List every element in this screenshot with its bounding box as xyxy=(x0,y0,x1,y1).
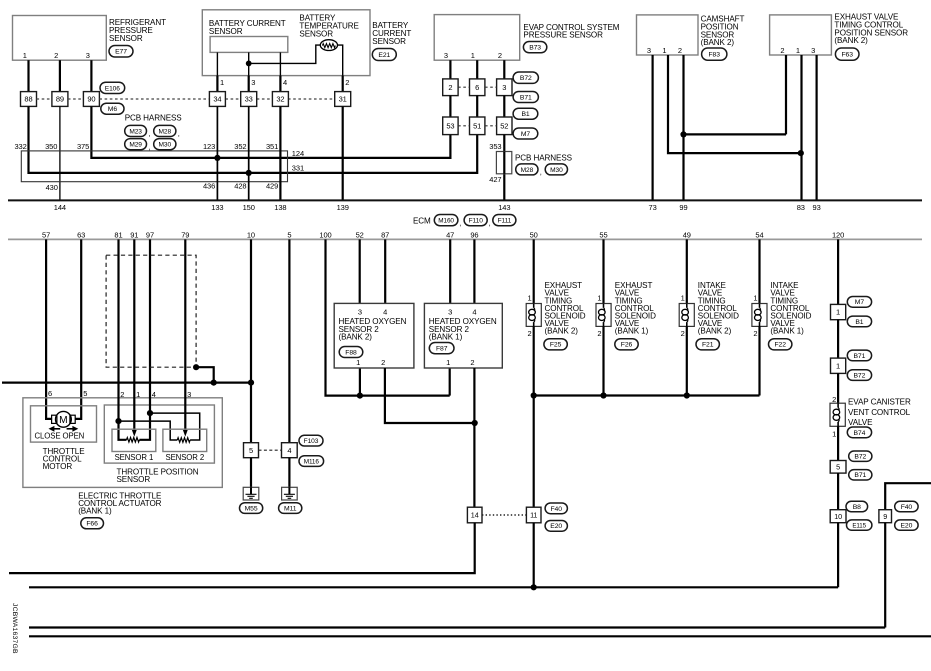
junction solenoid rail at F25 xyxy=(531,392,537,398)
svg-text:F40: F40 xyxy=(550,506,562,513)
connector box 32 xyxy=(272,92,288,107)
connector box 14 xyxy=(467,507,482,523)
svg-text:3: 3 xyxy=(444,51,448,60)
svg-text:F26: F26 xyxy=(621,342,633,349)
shield drain junction xyxy=(193,364,199,370)
wire ECM 54 to solenoid F22 xyxy=(758,239,760,303)
ECM top terminal bus xyxy=(8,199,922,201)
svg-text:2: 2 xyxy=(753,329,757,338)
connector label M6 xyxy=(101,103,124,114)
splice line B to off-page left xyxy=(29,586,838,588)
svg-text:1: 1 xyxy=(446,358,450,367)
svg-text:2: 2 xyxy=(345,78,349,87)
svg-text:31: 31 xyxy=(339,95,347,104)
junction TPS low side xyxy=(115,418,121,424)
wire F63 pin 1 to ECM 83 xyxy=(800,55,802,200)
svg-text:E21: E21 xyxy=(378,52,390,59)
connector box 33 xyxy=(241,92,257,107)
svg-text:1: 1 xyxy=(136,390,140,399)
wire ECM 96 to HO2S bank1 pin 4 xyxy=(473,239,475,303)
svg-text:MOTOR: MOTOR xyxy=(43,462,73,471)
connector box 11 xyxy=(526,507,541,523)
BCS pin labels xyxy=(220,78,349,87)
svg-text:M28: M28 xyxy=(159,128,172,135)
svg-text:M7: M7 xyxy=(521,131,531,138)
TPS pin labels xyxy=(120,390,191,399)
svg-text:73: 73 xyxy=(649,203,657,212)
svg-text:B71: B71 xyxy=(854,353,866,360)
svg-text:133: 133 xyxy=(211,203,223,212)
wire ECM 57 to throttle motor pin 6 xyxy=(46,239,52,419)
svg-text:53: 53 xyxy=(446,122,454,131)
battery temperature sensor thermistor xyxy=(299,14,359,39)
junction of wire 352 and 331 line xyxy=(246,170,252,176)
connector box 5 F103/M116 xyxy=(244,443,259,458)
svg-text:3: 3 xyxy=(187,390,191,399)
svg-text:139: 139 xyxy=(337,203,349,212)
svg-text:88: 88 xyxy=(24,95,32,104)
svg-text:2: 2 xyxy=(678,46,682,55)
wire ECM 50 to solenoid F25 xyxy=(533,239,535,303)
connector box 34 xyxy=(209,92,225,107)
thermistor left lead to pin 3 wire xyxy=(249,45,321,63)
ECM bottom terminal bus xyxy=(8,238,922,240)
wire ECM 47 to HO2S bank1 pin 3 xyxy=(449,239,451,303)
connector label E77 xyxy=(109,46,133,58)
svg-text:(BANK 2): (BANK 2) xyxy=(339,333,373,342)
wire ECM 63 to throttle motor pin 5 xyxy=(75,239,81,419)
wire F83 pin 3 to ECM 73 xyxy=(651,55,653,200)
wire F83 pin 1 to F63 pin 1 junction xyxy=(668,55,801,153)
svg-text:F25: F25 xyxy=(550,342,562,349)
svg-text:F87: F87 xyxy=(436,346,448,353)
camshaft position sensor bank 2 F83 xyxy=(637,15,699,55)
svg-text:EVAP CANISTER: EVAP CANISTER xyxy=(848,398,911,407)
svg-text:F103: F103 xyxy=(304,438,319,445)
thin shield loop around splice band xyxy=(21,151,287,182)
svg-text:B1: B1 xyxy=(855,319,863,326)
svg-text:E106: E106 xyxy=(105,85,120,92)
wire E77 pin 3 upper segment xyxy=(90,60,92,91)
svg-text:(BANK 1): (BANK 1) xyxy=(429,333,463,342)
svg-text:32: 32 xyxy=(276,95,284,104)
wire ECM 79 to TPS sensor 2 wiper xyxy=(184,239,186,431)
TPS sensor 2 element box xyxy=(163,429,207,451)
ground M11 xyxy=(282,487,298,500)
wire F83 pin 2 to ECM 99 xyxy=(682,55,684,200)
svg-text:1: 1 xyxy=(356,358,360,367)
junction TPS high side xyxy=(147,410,153,416)
svg-text:3: 3 xyxy=(251,78,255,87)
svg-text:10: 10 xyxy=(834,512,842,521)
dashed line between connector 5 and 4 xyxy=(259,449,282,451)
wire 353/427 B73 pin 2 to ECM 143 xyxy=(503,135,505,201)
svg-text:2: 2 xyxy=(597,329,601,338)
wire E77 pin 1 upper segment xyxy=(27,60,29,91)
svg-text:E20: E20 xyxy=(901,523,913,530)
wire connector 14 off-page via left xyxy=(9,523,475,573)
connector box 1 M7/B1 xyxy=(831,304,846,319)
svg-text:3: 3 xyxy=(502,83,506,92)
connector label E20 xyxy=(895,520,918,530)
connector label F40 xyxy=(895,501,918,511)
ground rail to ECM 10 xyxy=(2,382,251,384)
svg-text:PCB HARNESS: PCB HARNESS xyxy=(125,114,183,123)
svg-text:2: 2 xyxy=(54,51,58,60)
svg-text:PCB HARNESS: PCB HARNESS xyxy=(515,154,573,163)
svg-text:79: 79 xyxy=(181,230,189,239)
svg-text:2: 2 xyxy=(832,395,836,404)
svg-text:M11: M11 xyxy=(284,505,297,512)
junction thermistor lead and pin 3 wire xyxy=(246,61,252,67)
svg-text:50: 50 xyxy=(530,230,538,239)
svg-text:F63: F63 xyxy=(841,52,853,59)
wire ECM 10 to connector 5 xyxy=(250,239,252,442)
ground M55 xyxy=(243,487,259,500)
internal wires of battery current sensor xyxy=(216,52,218,75)
exhaust valve timing control position sensor bank 2 F63 xyxy=(770,15,832,55)
svg-text:375: 375 xyxy=(77,142,89,151)
svg-text:(BANK 1): (BANK 1) xyxy=(78,507,112,516)
svg-text:81: 81 xyxy=(114,230,122,239)
svg-text:,: , xyxy=(149,129,151,138)
wire F26 pin 2 to rail xyxy=(602,326,604,395)
dashed harness line E106/M6 xyxy=(37,98,335,100)
svg-text:1: 1 xyxy=(836,308,840,317)
wire HO2S bank1 pin 2 down to connector 14 xyxy=(473,368,475,507)
svg-text:5: 5 xyxy=(836,463,840,472)
svg-text:E20: E20 xyxy=(550,523,562,530)
svg-text:F40: F40 xyxy=(901,504,913,511)
connector box 5 B72/B71 xyxy=(830,461,846,474)
connector label B71 xyxy=(513,92,538,103)
wire 123/436 BCS pin1 to ECM 133 xyxy=(216,106,218,200)
EVAP control system pressure sensor B73 xyxy=(434,15,520,61)
wire HO2S bank2 pin 2 to pin2 rail xyxy=(385,368,475,423)
wire HO2S bank1 pin 1 xyxy=(449,368,451,396)
motor M symbol xyxy=(52,411,76,427)
svg-text:2: 2 xyxy=(498,51,502,60)
ECM top pin numbers xyxy=(54,203,821,212)
throttle position sensor label xyxy=(117,467,199,484)
wire ECM 87 to HO2S bank2 pin 4 xyxy=(384,239,386,303)
connector box 31 xyxy=(335,92,351,107)
svg-text:B1: B1 xyxy=(521,111,529,118)
shield dashed box around TPS wires xyxy=(106,255,196,367)
svg-text:4: 4 xyxy=(472,308,476,317)
svg-text:1: 1 xyxy=(836,361,840,370)
wire connector 5 to connector 10 xyxy=(837,473,839,510)
wire ECM 120 down right column xyxy=(837,239,839,304)
svg-text:47: 47 xyxy=(446,230,454,239)
line D through wire xyxy=(29,635,931,637)
svg-text:SENSOR 1: SENSOR 1 xyxy=(115,453,154,462)
svg-text:M6: M6 xyxy=(108,106,118,113)
svg-text:4: 4 xyxy=(287,446,291,455)
junction F21 on rail xyxy=(684,392,690,398)
svg-text:VALVE: VALVE xyxy=(848,418,873,427)
svg-text:E115: E115 xyxy=(852,523,866,530)
svg-text:5: 5 xyxy=(287,230,291,239)
svg-text:M28: M28 xyxy=(521,167,534,174)
svg-text:M160: M160 xyxy=(438,218,454,225)
wire HO2S bank2 pin 1 xyxy=(359,368,361,396)
wire F63 pin 2 down to cross link xyxy=(785,55,787,134)
svg-text:138: 138 xyxy=(274,203,286,212)
junction pin1 rail xyxy=(357,393,363,399)
shield drain wire xyxy=(196,367,214,382)
wire B73 pin 2 to connector 3 xyxy=(503,60,505,79)
wire 375/124 from E77 pin 3 to EVAP connector 53 xyxy=(91,106,450,157)
junction shield drain on ground rail xyxy=(211,380,217,386)
svg-text:93: 93 xyxy=(813,203,821,212)
wire 332/331 from E77 pin 1 to EVAP connector 51 xyxy=(29,106,478,172)
solenoid common rail xyxy=(534,394,760,396)
svg-text:ECM: ECM xyxy=(413,217,431,226)
svg-text:2: 2 xyxy=(448,83,452,92)
svg-text:14: 14 xyxy=(471,511,479,520)
connector box 90 xyxy=(83,92,99,107)
svg-text:352: 352 xyxy=(234,142,246,151)
svg-text:55: 55 xyxy=(599,230,607,239)
connector box 89 xyxy=(52,92,68,107)
svg-text:E77: E77 xyxy=(115,49,127,56)
svg-text:33: 33 xyxy=(245,95,253,104)
wire BCS pin 2 to connector 31 xyxy=(342,76,344,92)
svg-text:1: 1 xyxy=(471,51,475,60)
svg-text:2: 2 xyxy=(681,329,685,338)
wire valve pin1 to connector 5 xyxy=(837,426,839,460)
svg-text:1: 1 xyxy=(662,46,666,55)
wire E77 pin 2 upper segment xyxy=(59,60,61,91)
wire F25 pin 2 down to connector 11 xyxy=(533,326,535,507)
battery current sensor inner element xyxy=(210,37,288,53)
svg-text:3: 3 xyxy=(86,51,90,60)
svg-text:2: 2 xyxy=(780,46,784,55)
wire F63 pin 2 cross link xyxy=(684,133,787,135)
svg-text:51: 51 xyxy=(473,122,481,131)
wire BCS pin 1 to connector 34 xyxy=(216,76,218,92)
throttle control motor box xyxy=(31,406,97,442)
wire ECM 5 to connector 4 xyxy=(288,239,290,442)
refrigerant pressure sensor E77 xyxy=(13,16,107,61)
svg-text:B71: B71 xyxy=(854,472,866,479)
connector label B72 xyxy=(849,451,872,461)
connector label B72 xyxy=(847,370,871,381)
svg-text:34: 34 xyxy=(213,95,221,104)
connector box 2 xyxy=(443,79,458,96)
wire connector 9 to line C xyxy=(884,523,886,628)
dotted line between connector 14 and 11 xyxy=(482,514,528,516)
wire B73 pin 1 to connector 6 xyxy=(476,60,478,79)
TPS high side link to sensor 2 xyxy=(150,413,200,440)
svg-text:57: 57 xyxy=(42,230,50,239)
wire to EVAP canister vent control valve xyxy=(837,373,839,403)
svg-text:2: 2 xyxy=(381,358,385,367)
ECM bottom pin numbers xyxy=(42,230,844,239)
svg-text:90: 90 xyxy=(87,95,95,104)
svg-text:49: 49 xyxy=(683,230,691,239)
svg-text:11: 11 xyxy=(530,511,537,520)
dashed line between connectors 53-51-52 xyxy=(458,125,497,127)
heated oxygen sensor 2 bank 1 box F87 xyxy=(424,303,502,368)
svg-text:428: 428 xyxy=(234,182,246,191)
svg-text:2: 2 xyxy=(528,329,532,338)
svg-text:353: 353 xyxy=(489,142,501,151)
wire 352/428 BCS pin3 to ECM 150 xyxy=(248,106,250,200)
svg-text:1: 1 xyxy=(753,294,757,303)
PCB harness pass-through connector xyxy=(496,152,511,174)
svg-text:96: 96 xyxy=(470,230,478,239)
svg-text:(BANK 2): (BANK 2) xyxy=(545,327,579,336)
wire BCS pin 3 to connector 33 xyxy=(248,76,250,92)
connector label M7 xyxy=(847,297,871,308)
svg-text:144: 144 xyxy=(54,203,66,212)
connector label B71 xyxy=(847,350,871,361)
connector box 52 xyxy=(497,117,512,135)
svg-text:SENSOR: SENSOR xyxy=(372,37,406,46)
svg-text:F88: F88 xyxy=(345,349,357,356)
wires between connector rows xyxy=(449,96,451,117)
svg-text:2: 2 xyxy=(470,358,474,367)
connector label F103 xyxy=(299,435,323,446)
wire ECM 91 to TPS sensor 1 wiper xyxy=(133,239,135,431)
wire ECM 52 to HO2S bank2 pin 3 xyxy=(359,239,361,303)
svg-text:F111: F111 xyxy=(498,218,512,225)
wire connector 11 to splice on line B xyxy=(533,523,535,588)
svg-text:3: 3 xyxy=(811,46,815,55)
connector label E106 xyxy=(100,82,125,93)
svg-text:1: 1 xyxy=(681,294,685,303)
wire F21 pin 2 to rail xyxy=(686,326,688,395)
svg-text:4: 4 xyxy=(152,390,156,399)
junction of wire 123 and 124 line xyxy=(214,155,220,161)
svg-text:M23: M23 xyxy=(129,128,142,135)
svg-text:1: 1 xyxy=(220,78,224,87)
connector label M116 xyxy=(299,456,324,467)
wire ECM 100 to oxygen sensor pin 1 rail xyxy=(326,239,450,395)
svg-text:89: 89 xyxy=(56,95,64,104)
svg-text:SENSOR 2: SENSOR 2 xyxy=(165,453,204,462)
connector box 88 xyxy=(21,92,37,107)
svg-text:B72: B72 xyxy=(854,372,866,379)
svg-text:SENSOR: SENSOR xyxy=(209,27,243,36)
svg-text:,: , xyxy=(149,142,151,151)
svg-text:1: 1 xyxy=(23,51,27,60)
svg-text:4: 4 xyxy=(383,308,387,317)
line C to off-page left xyxy=(29,626,885,628)
motor close open arrows xyxy=(49,426,79,432)
connector label M7 xyxy=(513,128,538,139)
heated oxygen sensor 2 bank 2 box F88 xyxy=(334,303,414,368)
junction F63 pin1 and F83 pin1 link xyxy=(798,150,804,156)
svg-text:10: 10 xyxy=(247,230,255,239)
svg-text:52: 52 xyxy=(500,122,508,131)
svg-text:150: 150 xyxy=(243,203,255,212)
svg-text:B72: B72 xyxy=(520,75,532,82)
svg-text:1: 1 xyxy=(597,294,601,303)
connector box 6 xyxy=(470,79,485,96)
wire B73 pin 3 to connector 2 xyxy=(449,60,451,79)
svg-text:143: 143 xyxy=(498,203,510,212)
svg-text:427: 427 xyxy=(489,175,501,184)
svg-text:436: 436 xyxy=(203,182,215,191)
svg-text:351: 351 xyxy=(266,142,278,151)
svg-text:1: 1 xyxy=(528,294,532,303)
svg-text:124: 124 xyxy=(292,149,304,158)
connector box 9 F40/E20 xyxy=(879,510,892,523)
connector label F40 xyxy=(545,503,567,514)
wire F22 pin 2 to rail xyxy=(758,326,760,395)
svg-text:6: 6 xyxy=(475,83,479,92)
svg-text:4: 4 xyxy=(283,78,287,87)
wire ECM 81 to TPS sensor 1 low side xyxy=(119,239,127,439)
svg-text:350: 350 xyxy=(45,142,57,151)
svg-text:F83: F83 xyxy=(708,52,720,59)
svg-text:1: 1 xyxy=(832,429,836,438)
dashed line between connectors 2-6-3 xyxy=(458,86,497,88)
svg-text:(BANK 1): (BANK 1) xyxy=(770,327,804,336)
battery current sensor assembly box E21 xyxy=(202,10,370,76)
TPS low side link to sensor 2 xyxy=(119,421,178,440)
wire 351/429 BCS pin4 to ECM 138 xyxy=(279,106,281,200)
svg-text:(BANK 2): (BANK 2) xyxy=(834,36,868,45)
svg-text:331: 331 xyxy=(292,164,304,173)
svg-text:B74: B74 xyxy=(854,430,866,437)
svg-text:JCBWA1637GB: JCBWA1637GB xyxy=(11,603,18,654)
connector box 51 xyxy=(470,117,485,135)
junction connector 11 wire on line B xyxy=(531,584,537,590)
svg-text:120: 120 xyxy=(832,230,844,239)
svg-text:99: 99 xyxy=(679,203,687,212)
svg-text:F22: F22 xyxy=(774,342,786,349)
wire ECM 97 to TPS sensor 1 high side xyxy=(139,239,150,439)
svg-text:B73: B73 xyxy=(529,45,541,52)
wire ECM 55 to solenoid F26 xyxy=(602,239,604,303)
wire 350/430 from E77 pin 2 to ECM pin 144 xyxy=(59,106,61,200)
svg-text:M29: M29 xyxy=(129,142,142,149)
svg-text:2: 2 xyxy=(120,390,124,399)
connector box 3 xyxy=(497,79,512,96)
junction wire 10 on ground rail xyxy=(248,380,254,386)
svg-text:,: , xyxy=(489,219,491,228)
wire connector 5 to ground M55 xyxy=(250,458,252,488)
wire ECM 49 to solenoid F21 xyxy=(686,239,688,303)
svg-text:429: 429 xyxy=(266,182,278,191)
wire connector 10 to splice line B xyxy=(837,523,839,588)
svg-text:VENT CONTROL: VENT CONTROL xyxy=(848,408,911,417)
svg-text:123: 123 xyxy=(203,142,215,151)
connector label E20 xyxy=(545,521,567,532)
svg-text:87: 87 xyxy=(381,230,389,239)
electric throttle control actuator label F66 xyxy=(78,491,162,515)
svg-text:(BANK 2): (BANK 2) xyxy=(698,327,732,336)
svg-text:SENSOR: SENSOR xyxy=(109,34,143,43)
connector box 53 xyxy=(443,117,458,135)
junction F26 on rail xyxy=(600,392,606,398)
svg-text:B72: B72 xyxy=(854,454,866,461)
svg-text:5: 5 xyxy=(249,446,253,455)
svg-text:M55: M55 xyxy=(245,505,258,512)
svg-text:M: M xyxy=(59,415,68,426)
svg-text:3: 3 xyxy=(647,46,651,55)
connector box 4 F103/M116 xyxy=(282,443,298,458)
connector label B72 xyxy=(513,72,538,83)
svg-text:(BANK 2): (BANK 2) xyxy=(701,38,735,47)
svg-text:83: 83 xyxy=(797,203,805,212)
svg-text:M30: M30 xyxy=(550,167,563,174)
svg-text:332: 332 xyxy=(14,142,26,151)
